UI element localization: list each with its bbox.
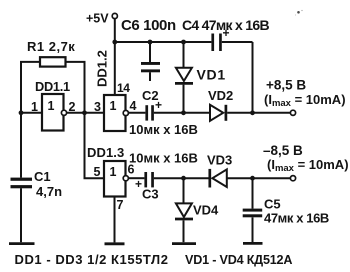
ground under C5 xyxy=(243,242,263,245)
node DD1.1 input junction xyxy=(19,110,24,115)
resistor R1 2,7k xyxy=(27,39,75,67)
svg-text:10мк х 16В: 10мк х 16В xyxy=(129,151,198,166)
wire +5V down to rail and pin 14 of DD1.2 xyxy=(114,19,116,95)
node -8,5V junction xyxy=(250,176,255,181)
power terminal +5V xyxy=(86,12,117,26)
wire DD1.3 pin 7 to ground xyxy=(114,197,116,243)
svg-text:+: + xyxy=(223,26,230,40)
node rail-C6 junction xyxy=(148,40,153,45)
svg-text:+8,5 В: +8,5 В xyxy=(266,78,306,93)
diode VD3 xyxy=(207,153,232,188)
svg-text:VD2: VD2 xyxy=(208,88,233,103)
node +8,5V junction xyxy=(250,110,255,115)
diode VD1 xyxy=(175,42,226,113)
wire top +5V rail xyxy=(115,42,253,113)
wire input row to DD1.1 xyxy=(21,112,42,114)
wire DD1.1 output down to DD1.3 input xyxy=(85,113,105,178)
wire C3 to VD3 xyxy=(154,177,209,179)
svg-text:47мк х 16В: 47мк х 16В xyxy=(264,211,329,226)
node rail-VD1 junction xyxy=(181,40,186,45)
svg-text:1: 1 xyxy=(48,99,55,113)
svg-text:VD4: VD4 xyxy=(193,203,219,218)
svg-text:10мк х 16В: 10мк х 16В xyxy=(129,122,198,137)
svg-text:VD3: VD3 xyxy=(207,153,232,168)
svg-text:1: 1 xyxy=(110,165,117,179)
node output DD1.1 junction xyxy=(82,110,87,115)
svg-text:C5: C5 xyxy=(264,197,281,212)
gate DD1.2 (Schmitt inverter) xyxy=(104,95,128,131)
svg-text:+: + xyxy=(155,98,162,112)
svg-text:C6 100n: C6 100n xyxy=(121,17,176,34)
svg-text:DD1.2: DD1.2 xyxy=(95,50,110,87)
terminal -8,5V output xyxy=(263,143,349,181)
ground under VD4 xyxy=(172,242,196,245)
wire VD3 to -8,5V terminal xyxy=(227,177,291,179)
node rail-left junction xyxy=(112,40,117,45)
wire DD1.1 output to DD1.2 input xyxy=(67,112,104,114)
svg-text:4,7n: 4,7n xyxy=(36,184,62,199)
svg-text:–8,5 В: –8,5 В xyxy=(263,143,303,158)
svg-text:(Imax = 10mA): (Imax = 10mA) xyxy=(264,92,346,109)
terminal +8,5V output xyxy=(264,78,346,116)
svg-text:VD1 - VD4 КД512А: VD1 - VD4 КД512А xyxy=(185,253,292,267)
wire C2 to VD2 xyxy=(154,112,210,114)
capacitor C5 47mk x 16V xyxy=(243,178,329,242)
svg-text:1: 1 xyxy=(31,100,38,114)
svg-text:R1 2,7к: R1 2,7к xyxy=(27,39,75,54)
wire VD2 to +8,5V terminal xyxy=(227,112,290,114)
capacitor C4 value 47mk x 16V xyxy=(182,17,269,51)
ground under C1 xyxy=(9,242,35,245)
svg-text:+5V: +5V xyxy=(86,12,109,26)
svg-text:7: 7 xyxy=(117,198,124,212)
svg-text:(Imax = 10mA): (Imax = 10mA) xyxy=(267,157,349,174)
svg-text:C3: C3 xyxy=(142,187,159,202)
node A junction xyxy=(181,110,186,115)
wire feedback loop around DD1.1 xyxy=(21,62,85,113)
scan speck artifact xyxy=(297,11,300,14)
gate DD1.3 (Schmitt inverter) xyxy=(104,161,128,197)
svg-text:VD1: VD1 xyxy=(197,67,226,83)
svg-text:5: 5 xyxy=(94,165,101,179)
ground under DD1.3 xyxy=(105,242,125,245)
capacitor C1 4,7n xyxy=(11,113,63,242)
diode VD4 xyxy=(175,178,219,242)
wire DD1.3 output to C3 xyxy=(129,177,145,179)
svg-text:DD1 - DD3 1/2 К155ТЛ2: DD1 - DD3 1/2 К155ТЛ2 xyxy=(15,252,169,267)
diode VD2 xyxy=(208,88,233,121)
capacitor C2 10mk x 16V xyxy=(129,88,198,137)
svg-text:1: 1 xyxy=(110,99,117,113)
node B junction xyxy=(181,176,186,181)
wire DD1.2 output to C2 xyxy=(129,112,146,114)
svg-text:C1: C1 xyxy=(34,169,51,184)
svg-text:3: 3 xyxy=(94,100,101,114)
svg-text:DD1.3: DD1.3 xyxy=(87,145,124,160)
capacitor C6 value 100n xyxy=(121,17,176,81)
svg-text:14: 14 xyxy=(117,81,130,95)
svg-text:DD1.1: DD1.1 xyxy=(35,79,70,94)
gate DD1.1 (Schmitt inverter) xyxy=(35,79,70,131)
svg-text:+: + xyxy=(135,177,142,191)
svg-text:4: 4 xyxy=(130,99,137,113)
capacitor C3 10mk x 16V xyxy=(129,151,198,202)
